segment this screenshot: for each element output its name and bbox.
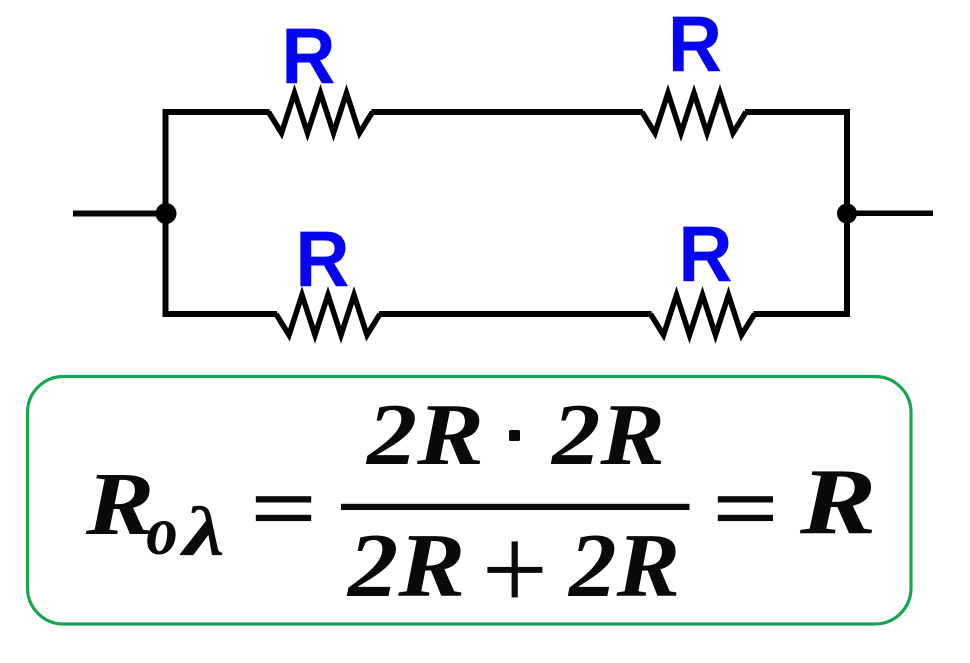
node A junction dot (left): [156, 203, 177, 224]
wire bottom rail right segment: [754, 311, 851, 317]
formula second equals sign: [718, 496, 773, 521]
wire bottom rail left segment: [163, 311, 277, 317]
wire left vertical: [163, 109, 169, 317]
formula denominator 2R + 2R: [346, 515, 680, 616]
svg-text:R: R: [281, 12, 335, 100]
formula first equals sign: [256, 496, 311, 521]
svg-text:2R: 2R: [567, 516, 680, 617]
svg-text:R: R: [799, 450, 877, 554]
wire top rail middle segment: [372, 109, 644, 115]
svg-text:R: R: [678, 210, 732, 298]
formula rounded box: [28, 377, 912, 625]
node B junction dot (right): [837, 204, 857, 224]
svg-text:R: R: [85, 454, 155, 554]
wire top rail left segment: [163, 109, 270, 115]
resistor R3: [276, 295, 380, 335]
formula fraction bar: [341, 504, 690, 510]
resistor R1: [269, 93, 373, 133]
resistor R4: [651, 295, 755, 335]
svg-text:λ: λ: [180, 493, 225, 570]
svg-text:R: R: [668, 0, 722, 88]
left terminal wire: [73, 211, 166, 217]
resistor R2: [642, 93, 746, 133]
svg-text:2R: 2R: [550, 387, 665, 484]
right terminal wire: [847, 210, 933, 216]
wire right vertical: [844, 109, 850, 317]
svg-text:2R: 2R: [365, 387, 484, 484]
formula R_o-lambda term: [85, 454, 225, 570]
wire top rail right segment: [745, 109, 850, 115]
formula numerator 2R . 2R: [365, 387, 665, 484]
svg-text:2R: 2R: [346, 515, 465, 616]
svg-text:R: R: [295, 215, 349, 303]
wire bottom rail middle segment: [379, 311, 652, 317]
svg-text:o: o: [146, 493, 178, 570]
